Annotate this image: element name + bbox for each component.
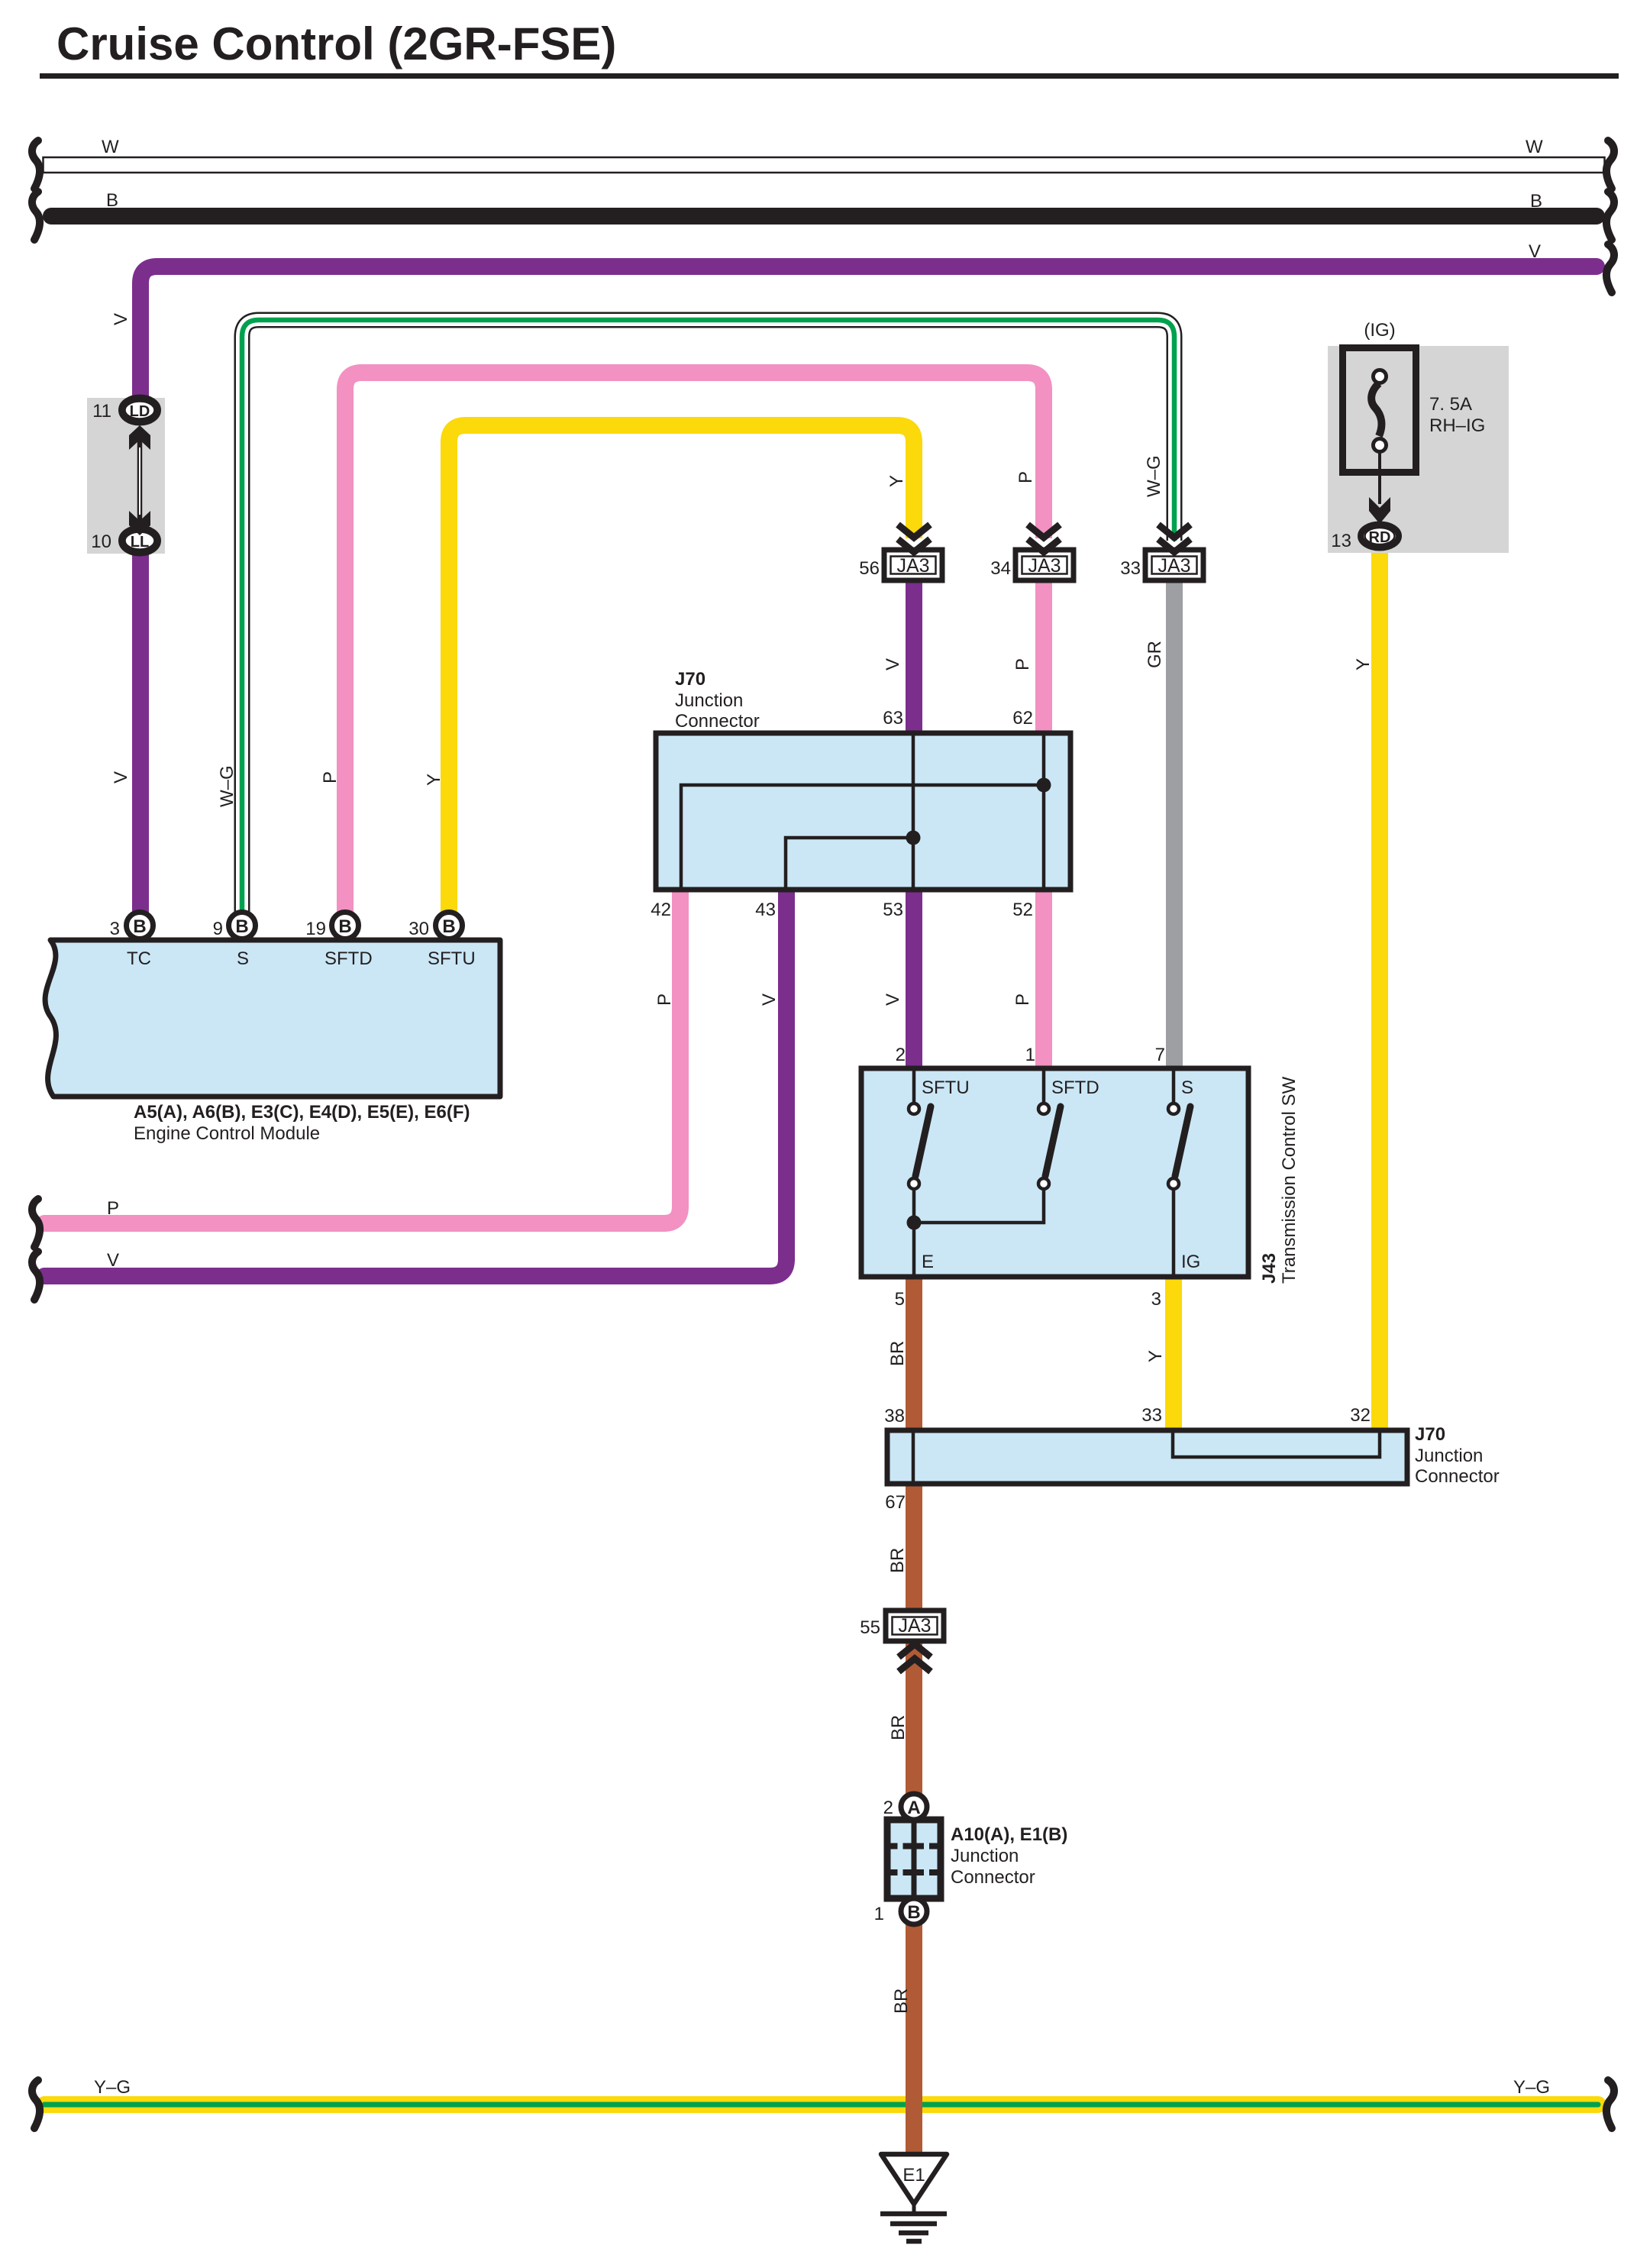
J70 upper internal wire 62-52 (1042, 733, 1046, 890)
svg-text:P: P (1012, 658, 1033, 670)
connector JA3 34 (1015, 550, 1074, 580)
svg-text:J70: J70 (1415, 1424, 1445, 1445)
svg-text:B: B (235, 916, 248, 937)
J70 upper internal wire 63-53 (912, 733, 915, 890)
svg-text:W–G: W–G (217, 765, 237, 807)
svg-text:3: 3 (110, 919, 120, 939)
wire P from JA3 34 to J70 pin 62 (1035, 579, 1052, 741)
ground E1 (880, 2154, 947, 2241)
transmission control switch J43 box (861, 1068, 1248, 1277)
svg-text:JA3: JA3 (896, 555, 929, 577)
svg-text:J70: J70 (675, 669, 705, 690)
svg-text:Junction: Junction (951, 1846, 1019, 1866)
svg-text:A: A (907, 1798, 920, 1818)
svg-text:Y: Y (1145, 1350, 1166, 1362)
arrow out of JA3 55 (899, 1644, 931, 1672)
wire P from ECM pin 19 to JA3 34 (345, 373, 1044, 916)
junction connector J70 upper box (656, 733, 1070, 890)
svg-text:53: 53 (883, 900, 903, 920)
svg-text:IG: IG (1181, 1252, 1200, 1272)
junction connector A10/E1 grid box (887, 1820, 941, 1898)
fuse element (1371, 370, 1386, 505)
svg-text:JA3: JA3 (1028, 555, 1061, 577)
wire BR from junction B to ground E1 (906, 1913, 922, 2157)
connector oval RD pin 13 (1361, 525, 1399, 548)
svg-text:P: P (107, 1198, 119, 1219)
wire Y-G ground bus (44, 2096, 1598, 2113)
svg-text:Y: Y (1353, 658, 1374, 670)
svg-text:34: 34 (990, 558, 1011, 579)
svg-text:JA3: JA3 (1158, 555, 1190, 577)
svg-text:V: V (111, 313, 131, 325)
wire P from J70 pin 52 to switch pin 1 (1035, 886, 1052, 1073)
svg-text:RH–IG: RH–IG (1429, 415, 1485, 436)
svg-text:S: S (237, 948, 249, 969)
svg-text:B: B (907, 1902, 920, 1923)
svg-text:33: 33 (1141, 1405, 1162, 1426)
svg-text:V: V (759, 993, 780, 1006)
wire BR from J70 pin 67 to JA3 55 (906, 1481, 922, 1615)
harness break brace right V (1606, 244, 1614, 292)
svg-text:V: V (883, 658, 903, 670)
wire B bus (51, 208, 1597, 225)
svg-text:SFTD: SFTD (324, 948, 373, 969)
svg-text:1: 1 (1025, 1045, 1035, 1065)
wire V bus to ECM pin 3 (140, 267, 1597, 916)
svg-text:P: P (320, 771, 341, 783)
arrow into JA3 56 (898, 525, 930, 552)
harness break brace right W (1606, 141, 1614, 189)
svg-text:7: 7 (1155, 1045, 1165, 1065)
svg-text:19: 19 (305, 919, 326, 939)
wire V from JA3 56 to J70 pin 63 (906, 579, 922, 741)
J70 lower internal wire 33-32 (1173, 1430, 1380, 1457)
svg-text:TC: TC (127, 948, 151, 969)
arrow into RD (1369, 497, 1390, 524)
harness break brace right B (1606, 192, 1614, 240)
svg-text:B: B (133, 916, 146, 937)
ECM box A5 Engine Control Module (45, 940, 500, 1097)
svg-text:JA3: JA3 (898, 1615, 931, 1636)
fuse RH-IG box (1343, 348, 1416, 473)
harness break brace left W (32, 141, 40, 189)
svg-text:BR: BR (888, 1715, 909, 1740)
wire W bus (44, 157, 1605, 173)
svg-text:P: P (654, 993, 675, 1006)
svg-text:55: 55 (860, 1617, 880, 1638)
svg-text:RD: RD (1369, 529, 1391, 546)
wire BR from switch pin 5 to J70 pin 38 (906, 1274, 922, 1436)
double arrow between LD and LL (129, 425, 150, 535)
svg-text:A5(A), A6(B), E3(C), E4(D), E5: A5(A), A6(B), E3(C), E4(D), E5(E), E6(F) (134, 1102, 470, 1123)
shield connector LD/LL background (87, 398, 165, 554)
svg-text:2: 2 (883, 1798, 893, 1818)
svg-text:B: B (106, 190, 118, 211)
wire Y from switch pin 3 to J70 pin 33 (1165, 1274, 1182, 1436)
switch SFTU (909, 1068, 931, 1277)
svg-text:BR: BR (891, 1989, 912, 2014)
svg-text:E1: E1 (902, 2165, 925, 2186)
svg-text:B: B (442, 916, 455, 937)
switch S (1168, 1068, 1190, 1277)
svg-text:LD: LD (130, 403, 150, 420)
J70 upper internal wire pin 42 branch (681, 785, 1044, 890)
svg-text:Junction: Junction (1415, 1446, 1483, 1466)
svg-text:67: 67 (885, 1492, 906, 1513)
svg-text:33: 33 (1120, 558, 1141, 579)
svg-text:LL: LL (131, 534, 149, 551)
wire Y from ECM pin 30 to JA3 56 (449, 425, 914, 916)
svg-text:A10(A), E1(B): A10(A), E1(B) (951, 1824, 1067, 1845)
connector oval LD pin 11 (121, 398, 158, 423)
svg-text:43: 43 (755, 900, 776, 920)
svg-text:32: 32 (1350, 1405, 1371, 1426)
svg-text:BR: BR (887, 1341, 908, 1366)
connector JA3 55 (886, 1611, 944, 1641)
connector JA3 56 (884, 550, 942, 580)
svg-text:9: 9 (213, 919, 223, 939)
switch junction dot node E (907, 1216, 922, 1230)
svg-text:11: 11 (92, 401, 111, 422)
ECM pin circle B 30 (436, 913, 463, 939)
svg-text:Engine Control Module: Engine Control Module (134, 1123, 320, 1144)
svg-text:Y–G: Y–G (1513, 2077, 1550, 2098)
svg-text:Cruise Control (2GR-FSE): Cruise Control (2GR-FSE) (57, 18, 616, 69)
svg-text:SFTU: SFTU (922, 1077, 970, 1098)
J70 upper internal wire pin 43 branch (786, 838, 913, 890)
svg-text:63: 63 (883, 708, 903, 729)
svg-text:Junction: Junction (675, 690, 743, 711)
svg-text:P: P (1015, 471, 1036, 483)
wire BR from JA3 55 to junction A (906, 1637, 922, 1798)
svg-text:5: 5 (895, 1289, 905, 1310)
svg-text:Y: Y (424, 774, 444, 786)
svg-text:SFTU: SFTU (428, 948, 476, 969)
svg-text:W: W (1526, 137, 1543, 157)
svg-text:3: 3 (1151, 1289, 1161, 1310)
harness break brace left Y-G (32, 2080, 40, 2128)
connector circle A pin 2 (901, 1794, 927, 1820)
title (40, 18, 1619, 79)
harness break brace left P (32, 1199, 40, 1247)
svg-text:56: 56 (859, 558, 880, 579)
svg-text:B: B (338, 916, 351, 937)
arrow into JA3 34 (1028, 525, 1060, 552)
svg-text:7. 5A: 7. 5A (1429, 394, 1472, 415)
svg-text:Connector: Connector (675, 711, 760, 732)
harness break brace left B (32, 192, 40, 240)
svg-text:Connector: Connector (1415, 1466, 1500, 1487)
svg-text:GR: GR (1145, 641, 1165, 668)
svg-text:W–G: W–G (1144, 455, 1164, 497)
svg-text:62: 62 (1012, 708, 1033, 729)
svg-text:Transmission Control SW: Transmission Control SW (1279, 1076, 1300, 1284)
wire W-G from ECM pin 9 to JA3 33 (242, 320, 1174, 916)
svg-text:E: E (922, 1252, 934, 1272)
ECM pin circle B 9 (229, 913, 256, 939)
svg-text:10: 10 (91, 531, 111, 552)
wire V bus lower left to J70 pin 43 (44, 892, 786, 1276)
svg-text:V: V (883, 993, 903, 1006)
svg-text:W: W (102, 137, 119, 157)
harness break brace right Y-G (1606, 2080, 1614, 2128)
svg-text:SFTD: SFTD (1051, 1077, 1099, 1098)
J70 upper junction dot (1037, 778, 1051, 793)
svg-text:1: 1 (874, 1904, 884, 1924)
svg-text:S: S (1181, 1077, 1193, 1098)
svg-text:B: B (1530, 191, 1542, 212)
svg-text:V: V (111, 771, 131, 783)
svg-text:Connector: Connector (951, 1867, 1035, 1888)
svg-text:38: 38 (884, 1406, 905, 1426)
connector circle B pin 1 (901, 1898, 927, 1924)
wire GR from JA3 33 to switch pin 7 (1166, 579, 1183, 1073)
ECM pin circle B 19 (332, 913, 359, 939)
svg-text:Y–G: Y–G (94, 2077, 131, 2098)
svg-text:42: 42 (651, 900, 671, 920)
fuse background (1328, 346, 1509, 553)
svg-text:30: 30 (408, 919, 429, 939)
wire P bus lower left to J70 pin 42 (44, 892, 680, 1223)
svg-text:2: 2 (896, 1045, 906, 1065)
connector JA3 33 (1145, 550, 1203, 580)
J70 lower internal wire 38-67 (912, 1430, 915, 1484)
arrow into JA3 33 (1158, 525, 1190, 552)
junction connector J70 lower box (887, 1430, 1407, 1484)
J70 upper junction dot (906, 831, 921, 845)
harness break brace left V (32, 1252, 40, 1300)
wire V from J70 pin 53 to switch pin 2 (906, 886, 922, 1073)
svg-text:Y: Y (886, 475, 907, 487)
svg-text:BR: BR (887, 1548, 908, 1573)
svg-text:P: P (1012, 993, 1033, 1006)
svg-text:52: 52 (1012, 900, 1033, 920)
svg-text:V: V (107, 1250, 119, 1271)
svg-text:13: 13 (1331, 531, 1351, 551)
connector oval LL pin 10 (121, 528, 158, 554)
svg-text:V: V (1529, 241, 1541, 262)
ECM pin circle B 3 (127, 913, 153, 939)
switch SFTD (914, 1068, 1061, 1223)
wire Y from fuse RD to J70 pin 32 (1371, 544, 1388, 1436)
svg-text:J43: J43 (1259, 1253, 1280, 1284)
svg-text:(IG): (IG) (1364, 320, 1395, 341)
